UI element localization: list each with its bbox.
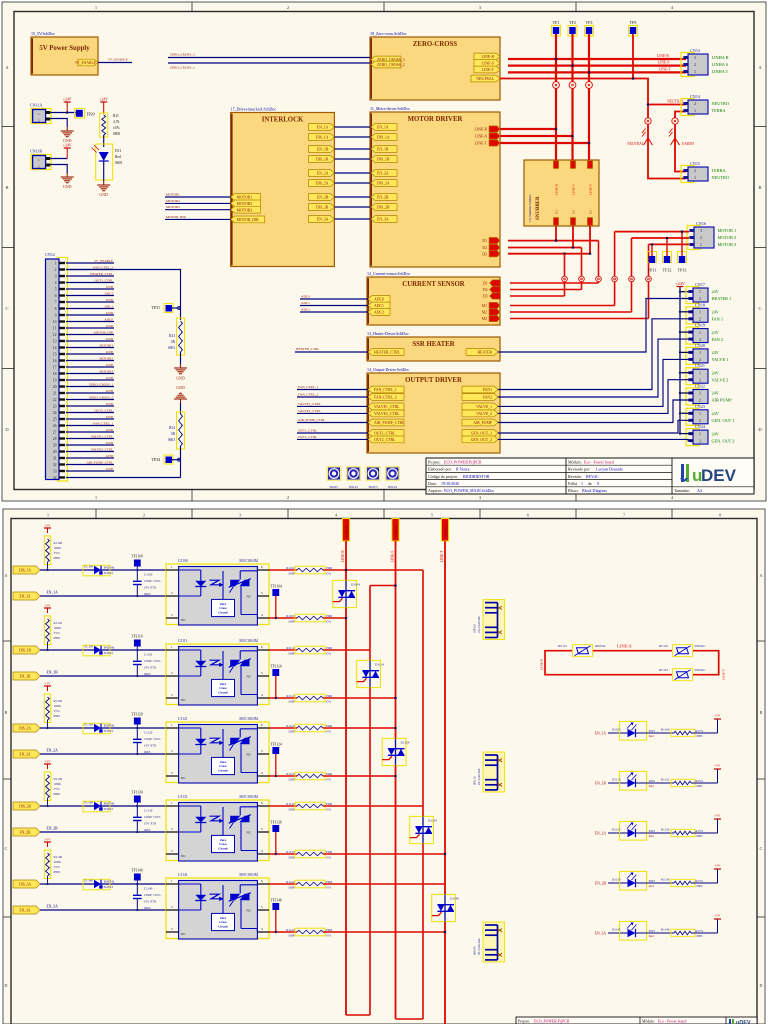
current loop circle 1	[562, 276, 568, 282]
svg-text:DIS_1B: DIS_1B	[19, 649, 31, 653]
port DIS_1B	[13, 646, 40, 654]
wire R34 to TP34	[180, 446, 182, 478]
svg-text:U1111: U1111	[178, 639, 188, 643]
svg-text:GND: GND	[106, 441, 114, 445]
svg-text:16: 16	[53, 359, 57, 363]
wire MOTOR 1 to CN16	[615, 231, 689, 233]
svg-text:2: 2	[694, 101, 696, 106]
wire CN11A pin1	[50, 112, 76, 114]
port 5V_ENABLE on 5V sheet	[78, 59, 98, 66]
svg-text:MOC3063M: MOC3063M	[239, 717, 258, 721]
svg-text:LINE-R: LINE-R	[554, 183, 558, 195]
svg-text:12: 12	[53, 333, 57, 337]
wire +24V rail	[679, 287, 681, 434]
resistor R1110 100K	[44, 616, 50, 645]
logo uDEV	[681, 464, 737, 485]
svg-text:NEUTRO: NEUTRO	[712, 101, 729, 106]
wire TP11 stub	[651, 244, 653, 256]
power symbol +5V LED row EN_2A	[691, 832, 718, 834]
svg-text:TF9: TF9	[630, 20, 637, 25]
svg-text:DEV: DEV	[701, 466, 737, 485]
svg-text:GND: GND	[106, 467, 114, 471]
svg-text:R1132: R1132	[286, 802, 295, 806]
svg-text:34: 34	[53, 476, 57, 480]
svg-text:HEATER 1: HEATER 1	[712, 296, 732, 301]
svg-text:GND: GND	[106, 311, 114, 315]
svg-text:2: 2	[699, 357, 701, 362]
junction ch3 pin4 LINE-S	[394, 775, 397, 778]
LED D1125 0603 Red	[608, 832, 628, 834]
svg-text:LINE-R: LINE-R	[341, 550, 345, 562]
resistor R1100 100K	[44, 536, 50, 565]
svg-text:TF1100: TF1100	[131, 555, 142, 559]
mounting hole HOLE1	[327, 466, 342, 481]
svg-text:100K: 100K	[54, 546, 62, 550]
svg-text:23: 23	[53, 405, 57, 409]
svg-text:R1146: R1146	[661, 928, 670, 932]
svg-text:ECO_POWER_MAIN.SchDoc: ECO_POWER_MAIN.SchDoc	[444, 488, 495, 493]
varistor RV132 660VAC	[673, 645, 693, 657]
svg-text:19/10/2020: 19/10/2020	[441, 481, 459, 486]
svg-text:C1100: C1100	[144, 573, 153, 577]
svg-text:B: B	[758, 185, 761, 190]
svg-text:GND: GND	[106, 285, 114, 289]
wires MOTOR1 MOTOR2 MOTOR3 MOTOR_DIR	[165, 196, 231, 198]
wire NEUTRAL down to CN15	[648, 105, 686, 179]
wire D3 current sensor	[510, 295, 565, 297]
svg-text:±5%: ±5%	[326, 886, 332, 890]
svg-text:DIS_1A: DIS_1A	[316, 136, 329, 140]
junction TF2/LINE-S	[571, 64, 574, 67]
svg-text:MOTOR2: MOTOR2	[100, 357, 114, 361]
svg-text:EN_2B: EN_2B	[595, 882, 607, 886]
svg-text:660VAC: 660VAC	[695, 668, 706, 672]
svg-text:2: 2	[287, 495, 289, 500]
svg-text:0603: 0603	[649, 779, 656, 783]
svg-text:D1134: D1134	[428, 818, 437, 822]
svg-text:2: 2	[694, 62, 696, 67]
diode D_140 BAT54L	[83, 879, 110, 890]
svg-text:OUT1_CTRL: OUT1_CTRL	[298, 428, 317, 432]
svg-text:TF3: TF3	[586, 20, 593, 25]
svg-text:ZERO_CROSS_2: ZERO_CROSS_2	[89, 396, 113, 400]
wire R1123 out	[323, 775, 396, 777]
svg-text:HOLE2: HOLE2	[349, 486, 358, 489]
svg-text:1k±5%: 1k±5%	[695, 729, 704, 733]
wire TF1 vertical to snubber	[555, 34, 557, 160]
diode D_100 BAT54L	[83, 565, 110, 576]
svg-text:100nF ±10%: 100nF ±10%	[144, 893, 161, 897]
svg-text:GND: GND	[106, 376, 114, 380]
ports of OUTPUT DRIVER sheet	[368, 386, 404, 393]
diode D_120 BAT54L	[83, 723, 110, 734]
svg-text:0805: 0805	[697, 834, 704, 838]
svg-text:EN_3A: EN_3A	[317, 218, 329, 222]
wire CT6 vertical (M3)	[648, 244, 650, 318]
wire EN_3A	[40, 909, 166, 911]
svg-text:100K: 100K	[54, 626, 62, 630]
svg-text:1: 1	[700, 242, 702, 247]
svg-text:R1113: R1113	[286, 694, 294, 698]
svg-text:M1: M1	[482, 304, 487, 308]
svg-text:330R: 330R	[288, 934, 295, 938]
svg-text:1: 1	[694, 108, 696, 113]
wire U1100 pin4	[269, 617, 297, 619]
svg-text:D2: D2	[482, 246, 487, 250]
wire +24V stub CN18	[680, 311, 693, 313]
wire snubber D1 vertical	[555, 226, 557, 241]
svg-text:+5V: +5V	[715, 764, 722, 768]
svg-text:AIR_PUMP_CTRL: AIR_PUMP_CTRL	[87, 461, 113, 465]
svg-text:EN_2A: EN_2A	[47, 748, 59, 752]
power symbol +5V LED row EN_1A	[691, 732, 718, 734]
svg-text:D1: D1	[554, 210, 558, 214]
svg-text:RV132: RV132	[659, 644, 668, 648]
wire MOTOR 2 to CN16	[632, 237, 690, 239]
svg-text:0R: 0R	[171, 432, 176, 436]
svg-text:5V_ENABLE: 5V_ENABLE	[94, 259, 113, 263]
svg-text:HEATER_CTRL: HEATER_CTRL	[90, 272, 113, 276]
svg-text:30: 30	[53, 450, 57, 454]
svg-text:GND: GND	[106, 454, 114, 458]
svg-text:0603: 0603	[144, 750, 151, 754]
svg-text:R1103: R1103	[286, 614, 295, 618]
svg-text:DIS_2A: DIS_2A	[19, 727, 31, 731]
svg-text:U1121: U1121	[178, 717, 188, 721]
svg-text:LINE-R: LINE-R	[657, 54, 669, 58]
svg-text:2: 2	[699, 296, 701, 301]
svg-text:D1135: D1135	[612, 878, 621, 882]
svg-text:100nF ±10%: 100nF ±10%	[144, 815, 161, 819]
svg-text:TF12: TF12	[663, 268, 672, 273]
svg-text:GND: GND	[106, 363, 114, 367]
svg-text:VALVE_1: VALVE_1	[476, 405, 492, 409]
junction TF1/LINE-R	[555, 58, 558, 61]
svg-text:EN_1A: EN_1A	[377, 126, 389, 130]
wire EN_2B	[40, 831, 166, 833]
svg-text:22: 22	[53, 398, 57, 402]
svg-text:C: C	[5, 306, 8, 311]
svg-text:GND: GND	[63, 184, 72, 189]
svg-text:PA-T220-64E: PA-T220-64E	[477, 616, 481, 633]
svg-text:0805: 0805	[54, 714, 61, 718]
wire TF12 stub	[666, 238, 668, 256]
port EN_1A	[13, 592, 40, 600]
svg-text:TF1136: TF1136	[270, 821, 281, 825]
svg-text:11_Motor-driver.SchDoc: 11_Motor-driver.SchDoc	[370, 106, 410, 111]
wire R1143 out	[323, 931, 445, 933]
svg-text:330R: 330R	[288, 652, 295, 656]
svg-text:+24V: +24V	[63, 98, 72, 102]
svg-text:ADC1: ADC1	[104, 305, 113, 309]
svg-text:D2: D2	[483, 288, 488, 292]
svg-text:2: 2	[699, 337, 701, 342]
svg-text:EN_2A: EN_2A	[20, 753, 31, 757]
svg-text:NEUTRAL: NEUTRAL	[627, 142, 644, 146]
svg-text:RV133: RV133	[659, 668, 668, 672]
current loop circle 6	[646, 276, 652, 282]
svg-text:SOT23: SOT23	[104, 729, 114, 733]
wire R1102 out	[323, 569, 423, 571]
svg-text:330R: 330R	[288, 620, 295, 624]
svg-text:14: 14	[53, 346, 57, 350]
resistor R1113 330R	[295, 694, 325, 702]
svg-text:NEUTRAL: NEUTRAL	[476, 77, 494, 81]
svg-text:10V X7R: 10V X7R	[144, 900, 157, 904]
wire D2 current sensor	[510, 289, 582, 291]
wire ZERO_CROSS_3	[168, 57, 370, 59]
wire MOTOR DRIVER LINE-S	[500, 135, 573, 137]
svg-text:AIR_PUMP_CTRL: AIR_PUMP_CTRL	[374, 421, 405, 425]
svg-text:AIR_PUMP_CTRL: AIR_PUMP_CTRL	[298, 418, 325, 422]
svg-text:21: 21	[53, 392, 57, 396]
svg-text:LINE-S: LINE-S	[475, 135, 487, 139]
svg-text:Módulo:: Módulo:	[642, 1020, 655, 1024]
wires CN12 nets	[66, 262, 114, 264]
svg-text:Eco - Power board: Eco - Power board	[658, 1020, 686, 1024]
wire D1 current sensor	[510, 282, 599, 284]
svg-text:LINHA S: LINHA S	[712, 62, 729, 67]
svg-text:LINE-T: LINE-T	[588, 183, 592, 195]
svg-text:R1143: R1143	[286, 928, 295, 932]
wire R1112 out	[323, 649, 370, 651]
svg-text:±5%: ±5%	[326, 700, 332, 704]
svg-text:1: 1	[699, 391, 701, 396]
wire snubber D3 vertical	[589, 226, 591, 254]
svg-text:26: 26	[53, 424, 57, 428]
right ports of MOTOR DRIVER sheet (LINE-R/S/T, D1-D3)	[489, 126, 500, 132]
svg-text:NC: NC	[181, 932, 186, 936]
svg-text:32: 32	[53, 463, 57, 467]
svg-text:0805: 0805	[697, 734, 704, 738]
svg-text:EN_2B: EN_2B	[47, 826, 59, 830]
svg-text:R1123: R1123	[286, 772, 295, 776]
resistor R11 4.7k	[103, 107, 105, 114]
svg-text:330R: 330R	[288, 700, 295, 704]
wire DIS_1A	[40, 569, 166, 571]
svg-text:1k±5%: 1k±5%	[695, 929, 704, 933]
svg-text:0805: 0805	[697, 934, 704, 938]
svg-text:D1: D1	[483, 282, 488, 286]
svg-text:Lucyan Dourado: Lucyan Dourado	[596, 467, 623, 472]
svg-text:13_Heater-Driver.SchDoc: 13_Heater-Driver.SchDoc	[367, 331, 409, 336]
svg-text:A: A	[760, 573, 763, 578]
wire DIS_1B	[40, 649, 166, 651]
svg-text:CN11A: CN11A	[30, 103, 42, 108]
resistor R1116 1k	[647, 782, 674, 784]
svg-text:DIS_2A: DIS_2A	[377, 182, 390, 186]
svg-text:C1140: C1140	[144, 887, 153, 891]
wire AIR_PUMP to connector	[498, 400, 693, 423]
svg-text:1: 1	[95, 5, 97, 10]
svg-text:EN_1B: EN_1B	[595, 782, 607, 786]
svg-text:24V: 24V	[712, 411, 720, 416]
svg-text:HEATER_CTRL: HEATER_CTRL	[296, 347, 319, 351]
wires ADC0 ADC1 ADC2	[300, 298, 368, 300]
svg-text:FAN 2: FAN 2	[712, 337, 724, 342]
wire R33 to GND	[180, 352, 182, 364]
svg-text:NC: NC	[247, 595, 252, 599]
svg-text:LINE-S: LINE-S	[658, 61, 669, 65]
svg-text:18_Zero-cross.SchDoc: 18_Zero-cross.SchDoc	[370, 31, 407, 36]
wire U1111 pin6	[269, 649, 297, 651]
junction ch2 pin4 LINE-S	[394, 697, 397, 700]
wire branch x423	[422, 570, 424, 816]
junction ch1 pin6 LINE-R	[345, 569, 348, 572]
wire GEN_OUT_1 to connector	[498, 420, 693, 433]
svg-text:C: C	[5, 846, 8, 851]
resistor R1122 330R	[295, 724, 325, 732]
LED D11 Red 0603	[103, 135, 105, 147]
svg-text:0603: 0603	[168, 346, 175, 350]
ports of SSR HEATER sheet	[368, 349, 404, 356]
svg-text:LINE-R: LINE-R	[475, 128, 488, 132]
svg-text:DIS_3A: DIS_3A	[19, 883, 31, 887]
symbol NEUTRAL fork	[647, 129, 649, 138]
triac D1104	[333, 580, 357, 607]
svg-text:R1100: R1100	[54, 541, 63, 545]
wire CT2 vertical	[581, 248, 583, 290]
svg-text:OUT1_CTRL: OUT1_CTRL	[95, 279, 114, 283]
wire MOTOR DRIVER LINE-T	[500, 142, 589, 144]
svg-text:DIS_2B: DIS_2B	[19, 805, 31, 809]
svg-text:GND: GND	[106, 298, 114, 302]
svg-text:NC: NC	[181, 698, 186, 702]
svg-text:0603: 0603	[649, 729, 656, 733]
svg-text:1: 1	[55, 262, 57, 266]
svg-text:10: 10	[53, 320, 57, 324]
svg-text:10V X7R: 10V X7R	[144, 822, 157, 826]
wire NEUTRAL from ZERO-CROSS	[500, 79, 686, 105]
wire U1121 pin4	[269, 775, 297, 777]
wire 5V_ENABLE	[98, 62, 132, 64]
svg-text:EN_2B: EN_2B	[377, 196, 389, 200]
svg-text:DIS_2B: DIS_2B	[316, 206, 329, 210]
svg-text:100K: 100K	[54, 782, 62, 786]
svg-text:100nF ±10%: 100nF ±10%	[144, 659, 161, 663]
wire DIS_2B	[40, 805, 166, 807]
svg-text:VALVE2_CTRL: VALVE2_CTRL	[91, 448, 113, 452]
right ports of INTERLOCK sheet	[308, 124, 334, 131]
resistor R1132 330R	[295, 802, 325, 810]
svg-text:MOTOR1: MOTOR1	[166, 192, 180, 196]
svg-text:9: 9	[55, 314, 57, 318]
wire U1141 pin4	[269, 931, 297, 933]
svg-text:ADC2: ADC2	[374, 311, 384, 315]
resistor R1142 330R	[295, 880, 325, 888]
svg-text:SOT23: SOT23	[104, 571, 114, 575]
svg-text:AIR PUMP: AIR PUMP	[712, 398, 733, 403]
svg-text:VALVE 1: VALVE 1	[712, 357, 729, 362]
svg-text:24V: 24V	[712, 289, 720, 294]
svg-text:C1110: C1110	[144, 653, 153, 657]
svg-text:SSR HEATER: SSR HEATER	[412, 341, 454, 348]
svg-text:VALVE1_CTRL: VALVE1_CTRL	[298, 402, 321, 406]
svg-text:GND: GND	[176, 385, 185, 390]
svg-text:0603: 0603	[649, 879, 656, 883]
svg-text:1: 1	[699, 330, 701, 335]
svg-text:7: 7	[623, 513, 625, 518]
svg-text:Data:: Data:	[428, 481, 437, 486]
svg-text:27: 27	[53, 431, 57, 435]
ground GND below CN11B	[66, 173, 68, 177]
current loop circle 2	[579, 276, 585, 282]
svg-text:EN_1A: EN_1A	[317, 126, 329, 130]
wire MOTOR DRIVER LINE-R	[500, 128, 556, 130]
svg-text:R1136: R1136	[661, 878, 670, 882]
svg-text:17_Driver-interlock.SchDoc: 17_Driver-interlock.SchDoc	[231, 106, 277, 111]
wire bottom U LINE-R	[346, 1014, 370, 1016]
svg-text:BAT54L: BAT54L	[104, 880, 115, 884]
svg-text:GND: GND	[106, 350, 114, 354]
svg-text:±5%: ±5%	[54, 709, 60, 713]
wire D1 (motor driver to CT)	[508, 240, 599, 242]
svg-text:R11: R11	[113, 114, 119, 118]
svg-text:GND: GND	[99, 192, 108, 197]
svg-text:EN_3A: EN_3A	[20, 909, 31, 913]
wire R1122 out	[323, 727, 396, 729]
svg-text:C: C	[758, 306, 761, 311]
wire DIS_3A	[40, 883, 166, 885]
svg-text:D_100: D_100	[84, 565, 93, 569]
svg-text:0603: 0603	[144, 672, 151, 676]
svg-text:SOT23: SOT23	[104, 807, 114, 811]
svg-text:R1140: R1140	[54, 855, 63, 859]
wire U1100 pin6	[269, 569, 297, 571]
optocoupler U1121 MOC3063M	[166, 722, 269, 783]
optocoupler U1141 MOC3063M	[166, 878, 269, 939]
svg-text:B: B	[760, 710, 763, 715]
svg-text:0805: 0805	[54, 792, 61, 796]
svg-text:1: 1	[38, 158, 40, 162]
svg-text:LINE-T: LINE-T	[482, 68, 495, 72]
svg-text:1: 1	[694, 69, 696, 74]
svg-text:2: 2	[699, 398, 701, 403]
svg-text:R33: R33	[169, 334, 175, 338]
svg-text:DIS_1A: DIS_1A	[377, 136, 390, 140]
svg-text:D_120: D_120	[84, 723, 93, 727]
svg-text:9: 9	[597, 481, 599, 486]
svg-text:15_5V.SchDoc: 15_5V.SchDoc	[31, 31, 55, 36]
svg-text:MOTOR_DIR: MOTOR_DIR	[237, 218, 260, 222]
svg-text:LINE-S: LINE-S	[617, 644, 632, 649]
svg-text:R1106: R1106	[661, 728, 670, 732]
svg-text:24V: 24V	[712, 370, 720, 375]
svg-text:EN_1A: EN_1A	[595, 732, 607, 736]
svg-text:1: 1	[699, 411, 701, 416]
svg-text:HR130: HR130	[473, 776, 477, 785]
resistor R1130 100K	[44, 772, 50, 801]
svg-text:EN_3A: EN_3A	[377, 218, 389, 222]
svg-text:GND: GND	[176, 376, 185, 381]
svg-text:D2: D2	[571, 210, 575, 214]
resistor R1106 1k	[647, 732, 674, 734]
svg-text:D1125: D1125	[612, 828, 621, 832]
svg-text:LINE-T: LINE-T	[659, 67, 671, 71]
svg-text:OUT1_CTRL: OUT1_CTRL	[374, 432, 396, 436]
svg-text:D1114: D1114	[375, 662, 384, 666]
svg-text:FAN_CTRL_1: FAN_CTRL_1	[298, 385, 319, 389]
heatsink HR110	[483, 600, 505, 640]
svg-text:NC: NC	[181, 776, 186, 780]
svg-text:D_140: D_140	[84, 879, 93, 883]
svg-text:NC: NC	[247, 753, 252, 757]
svg-text:OUT2_CTRL: OUT2_CTRL	[95, 409, 114, 413]
svg-text:0603: 0603	[649, 929, 656, 933]
svg-text:C1130: C1130	[144, 809, 153, 813]
svg-text:33: 33	[53, 470, 57, 474]
wire R1132 out	[323, 805, 423, 807]
